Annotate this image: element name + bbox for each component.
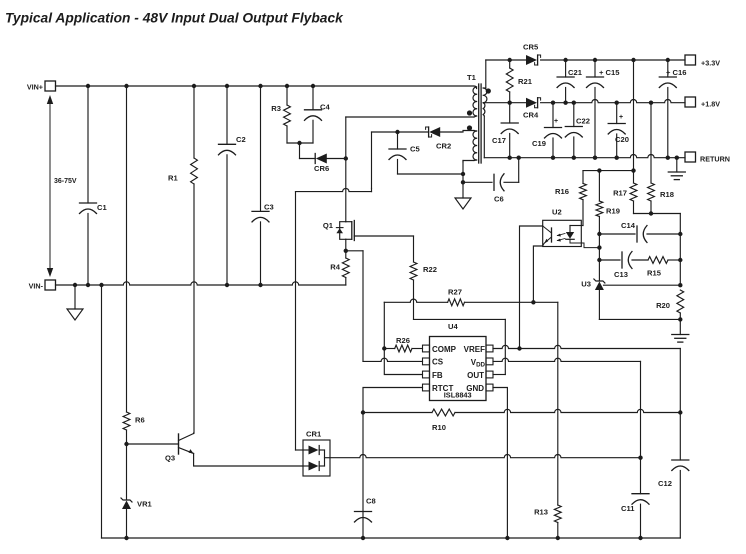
- wire VIN- rail: [56, 282, 346, 285]
- svg-text:R15: R15: [647, 269, 662, 278]
- svg-text:C8: C8: [366, 497, 376, 506]
- svg-text:C4: C4: [320, 103, 330, 112]
- svg-text:VR1: VR1: [137, 500, 153, 509]
- svg-text:R27: R27: [448, 288, 462, 297]
- resistor R19: [598, 171, 600, 201]
- transistor Q1: [340, 222, 346, 240]
- svg-text:C3: C3: [264, 203, 274, 212]
- phase dot primary: [467, 110, 472, 115]
- wire U3 ref: [604, 284, 681, 286]
- capacitor C17: [509, 103, 511, 123]
- wire opto collector: [520, 226, 543, 349]
- IC U4 ISL8843: [430, 337, 487, 401]
- svg-text:R20: R20: [656, 301, 670, 310]
- ground (input): [74, 285, 76, 309]
- wire opto emitter: [533, 246, 542, 302]
- svg-text:C21: C21: [568, 68, 583, 77]
- wire primary bottom: [346, 116, 474, 118]
- capacitor C12: [679, 413, 681, 461]
- phase dot secondary: [486, 88, 491, 93]
- shunt regulator U3: [594, 279, 605, 283]
- svg-text:COMP: COMP: [432, 345, 457, 354]
- svg-text:R22: R22: [423, 265, 437, 274]
- capacitor C13: [599, 259, 620, 261]
- terminal VIN+: [45, 81, 56, 91]
- wire U3 anode return: [599, 318, 680, 320]
- svg-text:+ C16: + C16: [666, 68, 686, 77]
- svg-text:C22: C22: [576, 117, 590, 126]
- wire bottom rail: [102, 537, 681, 539]
- svg-text:C6: C6: [494, 195, 504, 204]
- svg-text:C19: C19: [532, 139, 546, 148]
- svg-text:Q3: Q3: [165, 454, 175, 463]
- svg-text:Typical Application - 48V Inpu: Typical Application - 48V Input Dual Out…: [5, 11, 344, 26]
- svg-text:C12: C12: [658, 479, 672, 488]
- node feedback: [583, 170, 634, 172]
- ground (aux): [455, 198, 471, 209]
- svg-text:VIN-: VIN-: [29, 282, 44, 291]
- wire VDD line: [493, 358, 641, 361]
- capacitor C14: [599, 233, 635, 235]
- resistor R13 column: [557, 302, 559, 505]
- svg-text:C1: C1: [97, 203, 107, 212]
- svg-text:+: +: [554, 118, 558, 125]
- svg-text:T1: T1: [467, 73, 477, 82]
- svg-text:R19: R19: [606, 207, 620, 216]
- wire divider bottom: [634, 213, 681, 215]
- svg-text:C11: C11: [621, 504, 635, 513]
- resistor R4: [342, 258, 349, 278]
- diode CR2: [429, 127, 440, 137]
- wire OUT line: [493, 374, 505, 376]
- svg-text:C13: C13: [614, 270, 628, 279]
- optocoupler U2 LED: [569, 226, 571, 233]
- wire RTCT line: [363, 388, 423, 539]
- wire aux gnd: [462, 161, 464, 199]
- svg-text:CR4: CR4: [523, 111, 539, 120]
- svg-text:U2: U2: [552, 208, 562, 217]
- svg-text:OUT: OUT: [467, 371, 484, 380]
- capacitor C3: [260, 86, 262, 211]
- resistor R21: [509, 60, 511, 68]
- resistor R18: [650, 103, 652, 183]
- svg-text:+3.3V: +3.3V: [701, 59, 720, 68]
- wire C5 bottom: [398, 173, 464, 175]
- capacitor C8: [355, 511, 372, 513]
- wire FB line: [384, 349, 422, 375]
- wire VIN+ rail: [56, 85, 474, 87]
- capacitor C1: [87, 86, 89, 203]
- svg-text:CR1: CR1: [306, 430, 322, 439]
- phase dot aux: [467, 125, 472, 130]
- resistor R3: [286, 86, 288, 105]
- svg-text:C17: C17: [492, 136, 506, 145]
- svg-text:+: +: [619, 114, 623, 121]
- svg-text:R10: R10: [432, 423, 446, 432]
- wire Q3 emitter: [194, 454, 303, 467]
- 36-75V dimension arrow: [49, 99, 51, 273]
- resistor R22: [413, 236, 415, 262]
- svg-text:R6: R6: [135, 416, 145, 425]
- wire CS line: [363, 358, 423, 361]
- transformer T1 core: [478, 84, 480, 163]
- svg-text:R4: R4: [330, 263, 340, 272]
- svg-text:VREF: VREF: [464, 345, 485, 354]
- wire VREF line: [493, 345, 680, 348]
- ground (earth, RETURN): [676, 158, 678, 172]
- wire R3-C4 junction: [287, 142, 313, 144]
- svg-text:C2: C2: [236, 135, 246, 144]
- svg-text:CS: CS: [432, 358, 444, 367]
- diode CR1: [303, 440, 330, 476]
- terminal +1.8V: [685, 97, 696, 107]
- svg-text:C20: C20: [615, 135, 629, 144]
- wire RETURN rail: [484, 154, 685, 157]
- svg-text:+ C15: + C15: [599, 68, 620, 77]
- wire gnd tie: [518, 158, 520, 183]
- svg-text:R1: R1: [168, 174, 178, 183]
- wire R16 to LED: [570, 225, 583, 227]
- transformer T1 aux winding: [473, 131, 477, 160]
- diode CR6: [300, 158, 316, 160]
- svg-text:U3: U3: [581, 280, 591, 289]
- wire gate drive from OUT: [414, 318, 506, 320]
- capacitor C6: [463, 181, 492, 183]
- capacitor C20: [616, 103, 618, 124]
- svg-text:RETURN: RETURN: [700, 155, 730, 164]
- svg-text:CR2: CR2: [436, 142, 451, 151]
- svg-text:FB: FB: [432, 371, 443, 380]
- resistor R16: [582, 171, 584, 184]
- wire +3.3V rail: [485, 60, 487, 88]
- wire aux feed down to CR1: [295, 192, 297, 450]
- svg-text:R18: R18: [660, 190, 674, 199]
- wire left gnd drop: [101, 285, 103, 538]
- capacitor C4: [312, 86, 314, 110]
- terminal +3.3V: [685, 55, 696, 65]
- terminal VIN-: [45, 280, 56, 290]
- svg-text:36-75V: 36-75V: [54, 178, 77, 185]
- capacitor C16: [667, 60, 669, 77]
- capacitor C15: [594, 60, 596, 77]
- diode CR4: [526, 98, 537, 108]
- capacitor C22: [573, 103, 575, 127]
- svg-text:Q1: Q1: [323, 221, 334, 230]
- ground (earth, U3): [679, 319, 681, 334]
- svg-text:R21: R21: [518, 77, 533, 86]
- svg-text:R3: R3: [271, 104, 281, 113]
- resistor R27: [384, 299, 447, 302]
- wire +1.8V rail: [485, 102, 526, 104]
- svg-text:VIN+: VIN+: [27, 83, 43, 92]
- optocoupler U2: [543, 220, 582, 246]
- diode CR5: [526, 55, 537, 65]
- transformer T1 secondary winding: [483, 88, 487, 115]
- wire RT line R10: [363, 412, 432, 414]
- wire drain vertical: [345, 117, 347, 222]
- transistor Q3: [127, 443, 179, 445]
- resistor R15: [632, 259, 648, 261]
- svg-text:RTCT: RTCT: [432, 384, 453, 393]
- resistor R6: [126, 86, 128, 412]
- svg-text:GND: GND: [466, 384, 484, 393]
- svg-text:C5: C5: [410, 145, 420, 154]
- svg-text:R17: R17: [613, 189, 627, 198]
- svg-text:U4: U4: [448, 322, 458, 331]
- resistor R20: [677, 290, 684, 313]
- resistor R26: [382, 346, 386, 350]
- wire Q1 source: [345, 239, 347, 258]
- wire CS sense: [346, 250, 363, 252]
- capacitor C5: [372, 131, 429, 133]
- resistor R17: [630, 183, 637, 201]
- wire Q1 gate lead: [354, 235, 413, 237]
- svg-text:R16: R16: [555, 187, 569, 196]
- svg-text:CR6: CR6: [314, 164, 329, 173]
- svg-text:R26: R26: [396, 336, 410, 345]
- capacitor C2: [226, 86, 228, 144]
- wire CR1 output: [325, 457, 331, 459]
- transformer T1 primary winding: [473, 86, 477, 116]
- svg-text:C14: C14: [621, 221, 636, 230]
- svg-text:R13: R13: [534, 508, 548, 517]
- terminal RETURN: [685, 152, 696, 162]
- capacitor C21: [565, 60, 567, 77]
- capacitor C11: [640, 458, 642, 494]
- capacitor C19: [552, 103, 554, 128]
- resistor R1: [193, 86, 195, 158]
- wire GND line: [493, 388, 507, 539]
- svg-text:CR5: CR5: [523, 43, 539, 52]
- wire aux dc link: [371, 132, 373, 188]
- wire LED cathode: [581, 243, 599, 248]
- svg-text:+1.8V: +1.8V: [701, 100, 720, 109]
- wire 3.3V sense drop: [633, 60, 635, 183]
- wire Q3 collector: [193, 432, 195, 435]
- zener VR1: [126, 444, 128, 500]
